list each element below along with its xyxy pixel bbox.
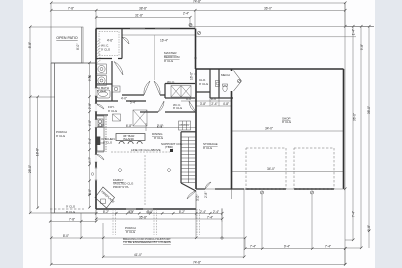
hall shower x-box (133, 110, 147, 126)
sink kitchen (97, 119, 103, 127)
svg-text:3'-8": 3'-8" (200, 102, 206, 106)
svg-text:4'-0": 4'-0" (121, 97, 127, 101)
svg-text:8'-2": 8'-2" (179, 210, 185, 214)
dimension shop doors row (196, 189, 345, 249)
stair rail (188, 137, 190, 183)
open patio inner edge (80, 27, 82, 63)
window family south (126, 208, 153, 210)
svg-text:MECH: MECH (221, 73, 230, 77)
window tag circles south (130, 211, 133, 214)
window master east ticks (194, 58, 197, 74)
svg-text:41'-0": 41'-0" (134, 253, 142, 257)
svg-text:38'-8": 38'-8" (139, 7, 147, 11)
dimension right x345 full height (344, 3, 346, 265)
fridge (97, 143, 104, 151)
svg-text:5'-4": 5'-4" (130, 101, 136, 105)
svg-text:35'-8": 35'-8" (139, 215, 147, 219)
porch bottom edge (51, 212, 96, 214)
roof overhang line upper (190, 26, 374, 28)
wall bedroom south (122, 94, 165, 96)
svg-text:34'-0": 34'-0" (265, 127, 273, 131)
dimension bedroom sub-row (122, 29, 195, 36)
svg-text:9'-8": 9'-8" (367, 225, 371, 231)
svg-text:1'-4": 1'-4" (157, 125, 163, 129)
ridge marker east (167, 168, 171, 172)
dimension right x369 (345, 27, 369, 249)
washer box (97, 64, 107, 74)
ticks bottom rows (49, 212, 347, 266)
porch clg break dashed (50, 208, 84, 210)
svg-text:W.I.C.: W.I.C. (167, 80, 175, 84)
svg-text:9' CLG: 9' CLG (164, 59, 174, 63)
porch top edge at patio (51, 62, 96, 64)
dryer box (97, 76, 107, 86)
svg-text:2'-4": 2'-4" (183, 11, 189, 15)
kitchen counter west (96, 116, 104, 152)
svg-text:1'-4": 1'-4" (352, 29, 356, 35)
wall shop north (196, 68, 344, 70)
dimension bottom left porch 7'-8" (50, 209, 245, 265)
svg-text:7'-4": 7'-4" (207, 215, 213, 219)
svg-text:7'-4": 7'-4" (325, 245, 331, 249)
support col (170, 149, 173, 152)
double door master bedroom (144, 81, 160, 95)
dimension right x353 (345, 27, 374, 241)
svg-text:8'-8": 8'-8" (28, 42, 32, 48)
kitchen island (116, 134, 145, 145)
porch label left (56, 130, 67, 138)
svg-text:38'-0": 38'-0" (367, 106, 371, 114)
wall shop south thin line (196, 188, 344, 190)
kitchen upper cab dashed (105, 116, 107, 152)
svg-text:16'-0": 16'-0" (190, 72, 194, 80)
svg-text:6'-8": 6'-8" (126, 124, 132, 128)
stair treads (181, 137, 196, 183)
svg-text:4'-7": 4'-7" (88, 157, 92, 163)
toilet shop bath (223, 86, 227, 92)
svg-text:31'-8": 31'-8" (135, 14, 143, 18)
ridge line dashed (144, 155, 146, 205)
svg-text:OPEN PATIO: OPEN PATIO (56, 36, 78, 40)
svg-text:9' CLG: 9' CLG (56, 134, 66, 138)
wall stair west (180, 132, 182, 183)
porch south east edge (221, 209, 223, 223)
svg-text:36'-0": 36'-0" (353, 113, 357, 121)
wall mbath south / hall north (96, 100, 146, 102)
svg-text:7'-4": 7'-4" (352, 211, 356, 217)
wall family east angled (181, 183, 196, 191)
svg-text:3'-0": 3'-0" (196, 195, 200, 201)
svg-text:7'-8": 7'-8" (68, 7, 74, 11)
pantry cabinet (179, 121, 191, 130)
svg-text:2'-8": 2'-8" (88, 103, 92, 109)
wall storage south doorside (196, 188, 244, 190)
svg-text:2'-8": 2'-8" (204, 192, 208, 198)
dimension storage top row (181, 69, 232, 101)
roof overhang line lower (195, 36, 356, 38)
ticks top rows (50, 2, 347, 19)
dim riser storage east (195, 196, 197, 219)
wall laundry south (96, 83, 112, 85)
dimension top overall 74'-8" (51, 3, 345, 27)
wall shop east (343, 69, 345, 189)
open patio outline (51, 27, 83, 63)
svg-text:TO BE ENGINEERED BY OTHERS: TO BE ENGINEERED BY OTHERS (123, 240, 171, 244)
svg-text:2'-4": 2'-4" (211, 102, 217, 106)
wall hall south at kitchen (96, 114, 108, 116)
dimension clo/bath row (196, 98, 232, 106)
wall storage west (195, 69, 197, 189)
dimension bottom overall 74'-8" (51, 249, 345, 265)
dimension west wall ticks column (89, 63, 91, 208)
dimension left column 8'-8" / 28'-0" (30, 27, 55, 213)
svg-text:7'-4": 7'-4" (250, 245, 256, 249)
svg-text:ISLAND: ISLAND (123, 137, 135, 141)
wall house north (96, 28, 195, 30)
wall wic east (121, 29, 123, 59)
sink shop bath (216, 81, 220, 87)
tub master bath (97, 90, 110, 98)
svg-text:34'-0": 34'-0" (267, 167, 275, 171)
svg-text:9' CLG: 9' CLG (108, 109, 118, 113)
svg-text:7'-8": 7'-8" (69, 217, 75, 221)
svg-text:2'-4": 2'-4" (200, 210, 206, 214)
svg-text:LINE OF CLG ABOVE: LINE OF CLG ABOVE (131, 148, 161, 152)
centerline marker shop door right (310, 191, 313, 194)
door family east to storage (187, 191, 196, 199)
door wic2 right (189, 101, 196, 112)
door wic (122, 37, 129, 44)
wic west wall insulation hatch (97, 39, 101, 63)
svg-text:4'-8": 4'-8" (223, 102, 229, 106)
island stools (119, 141, 142, 144)
wall clo north block: clo and mech bath (196, 69, 233, 98)
wall house south (96, 208, 196, 210)
porch south posts dashed (113, 209, 200, 235)
wall house west (95, 29, 97, 210)
svg-text:PNTRY: PNTRY (180, 123, 190, 127)
range (97, 137, 101, 146)
door centerline bedroom (154, 35, 156, 80)
svg-text:9' CLG: 9' CLG (66, 205, 76, 209)
door foyer west (96, 104, 104, 109)
svg-text:9' CLG: 9' CLG (173, 106, 183, 110)
ticks left col (29, 26, 39, 215)
svg-text:8'-0": 8'-0" (63, 234, 69, 238)
svg-text:18'-8": 18'-8" (36, 148, 40, 156)
ticks west column (88, 62, 91, 209)
svg-text:(TBD): (TBD) (165, 145, 173, 149)
porch west edge (51, 63, 55, 213)
svg-text:4'-6": 4'-6" (107, 39, 113, 43)
svg-text:36'-0": 36'-0" (264, 6, 272, 10)
svg-text:9'-8": 9'-8" (88, 75, 92, 81)
centerline marker storage door (237, 79, 240, 82)
dimension top second row 7'-8" / 38'-8" (51, 11, 345, 29)
centerline marker shop door left (260, 191, 263, 194)
door storage south (205, 182, 211, 189)
dimension top third row 31'-8" / 2'-4" (96, 18, 190, 28)
wall house east / shop west (195, 29, 197, 70)
window master north (130, 28, 170, 30)
wall wic2 south (165, 97, 195, 99)
svg-text:9' CLG: 9' CLG (154, 136, 164, 140)
dimension bottom 35'-8" row (96, 218, 222, 220)
svg-text:74'-8": 74'-8" (193, 261, 201, 265)
door hall to laundry (114, 62, 123, 76)
svg-text:3'-4": 3'-4" (88, 138, 92, 144)
future lift dashed right (294, 148, 334, 189)
double door storage to shop (234, 71, 242, 92)
svg-text:9'-8": 9'-8" (360, 44, 364, 50)
dimension right x361 (360, 27, 362, 249)
dimension kitchen row (96, 123, 196, 131)
mbath label (97, 86, 109, 93)
door wic2 left (158, 101, 164, 112)
fireplace angled diamond (95, 187, 115, 208)
ticks right cols (344, 25, 371, 266)
svg-text:74'-8": 74'-8" (193, 0, 201, 4)
wic shelving dashed (99, 32, 119, 56)
wall shop south door panels (246, 188, 335, 190)
wall mbath east (111, 61, 113, 101)
wall clo east (218, 69, 220, 98)
svg-text:8'-0": 8'-0" (76, 44, 80, 50)
svg-text:9' CLG: 9' CLG (282, 120, 292, 124)
window mbath west wall (95, 88, 97, 96)
svg-text:9' CLG: 9' CLG (203, 146, 213, 150)
door gap foyer west wall (95, 104, 97, 112)
svg-text:9' CLG: 9' CLG (101, 48, 111, 52)
svg-text:9' CLG: 9' CLG (126, 230, 136, 234)
ridge marker west (118, 168, 122, 172)
centerline marker shop nw (197, 31, 200, 34)
dimension bottom 41'-0" row (103, 189, 244, 257)
door gap family west wall (95, 155, 97, 163)
svg-text:9' CLG: 9' CLG (199, 82, 209, 86)
door family west (96, 154, 104, 160)
circle marker porch line (221, 237, 223, 239)
svg-text:9'-4": 9'-4" (284, 245, 290, 249)
dimension left inner column (37, 97, 39, 208)
line of clg above dashed (111, 151, 170, 153)
window family west wall (95, 168, 97, 181)
svg-text:6'-0": 6'-0" (88, 189, 92, 195)
vanity master bath (112, 86, 120, 92)
wall hall south (140, 111, 196, 113)
svg-text:9' CLG: 9' CLG (103, 140, 113, 144)
svg-text:PROP 9' PL: PROP 9' PL (113, 185, 129, 189)
dimension shop interior row (232, 131, 344, 171)
svg-text:16'-4": 16'-4" (160, 39, 168, 43)
svg-text:28'-0": 28'-0" (28, 165, 32, 173)
wall wic south (96, 58, 122, 60)
svg-text:8'-2": 8'-2" (103, 210, 109, 214)
dimension bottom south wall row (96, 191, 222, 219)
wall storage east (231, 69, 233, 189)
wall stair head (181, 131, 196, 133)
svg-text:9' CLG: 9' CLG (97, 89, 107, 93)
svg-text:2'-4": 2'-4" (213, 210, 219, 214)
future lift dashed left (246, 148, 286, 189)
hall linen box (113, 114, 121, 121)
svg-text:4'-0": 4'-0" (88, 120, 92, 126)
svg-text:8' CLG: 8' CLG (66, 210, 76, 214)
wic2 wardrobe x-hatch (171, 86, 191, 98)
wall wic2 west (165, 84, 195, 99)
window kitchen west wall (95, 120, 97, 128)
centerline marker top wall (189, 23, 192, 26)
open patio label (56, 36, 80, 50)
